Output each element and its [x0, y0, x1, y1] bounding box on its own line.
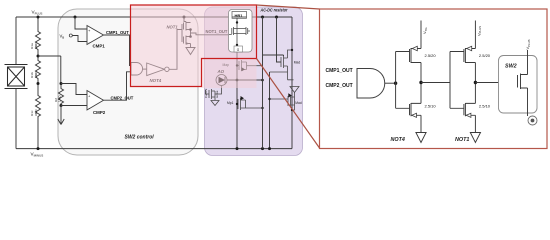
svg-text:CMP2_OUT: CMP2_OUT [326, 83, 353, 89]
wire AO output [227, 79, 263, 81]
transistor NOT1 NMOS [184, 30, 191, 48]
svg-text:CMP1_OUT: CMP1_OUT [326, 68, 353, 74]
wire column c2 [263, 17, 284, 149]
wire gate feed chain1 [396, 52, 410, 109]
callout line top [257, 5, 320, 9]
svg-text:SW2: SW2 [505, 64, 517, 70]
wire NOT4 out to NOT1 in [169, 30, 182, 70]
svg-text:Mp1: Mp1 [227, 101, 234, 105]
node NOT1 rail top [183, 16, 186, 19]
callout line bottom diagonal [257, 59, 320, 149]
svg-text:VMINUS: VMINUS [31, 151, 44, 157]
wire AND to NOT [143, 68, 147, 70]
node R2 top [60, 82, 63, 85]
node tap1 [37, 55, 40, 58]
transistor Mad2 [270, 87, 300, 111]
svg-text:CMP2: CMP2 [93, 110, 106, 115]
svg-text:NOT1: NOT1 [455, 137, 469, 143]
transistor Mp1 [237, 98, 263, 110]
transistor Map [237, 60, 263, 71]
node top rail purple [261, 16, 264, 19]
wire CMP1 plus input [75, 17, 87, 29]
wire AND out [385, 82, 396, 84]
wire NOT1_OUT [191, 33, 230, 35]
svg-text:Current: Current [204, 88, 208, 98]
resistor R1a [36, 17, 41, 60]
wire tap1 to R2 column [38, 56, 61, 84]
HB1 bridge internals [229, 18, 250, 46]
transistor NOT1 PMOS [182, 17, 191, 42]
svg-text:9MΩ: 9MΩ [34, 109, 38, 116]
svg-text:CMP1: CMP1 [93, 43, 106, 48]
transistor NOT4 PMOS detail [410, 48, 422, 63]
svg-text:VTG: VTG [422, 27, 428, 34]
wire CMP2 minus input [61, 105, 87, 107]
wire V_B to CMP1 minus [72, 36, 87, 42]
node bottom rail at R column [37, 147, 40, 150]
node NOT1 output [189, 28, 192, 31]
diode AO (circle) [216, 75, 227, 86]
svg-text:2.5/20: 2.5/20 [479, 53, 491, 58]
gate NOT4 inverter triangle [147, 63, 165, 76]
wire column c2 [261, 79, 264, 82]
wire Mad1 gate feed [277, 17, 282, 62]
node chain1 out [420, 63, 422, 104]
svg-text:1MΩ: 1MΩ [57, 95, 61, 102]
wire chain1 out to chain2 [421, 52, 464, 109]
node R2 bottom [60, 104, 63, 107]
transistor NOT1 NMOS detail [464, 103, 476, 116]
svg-text:2.5/20: 2.5/20 [425, 53, 437, 58]
ground chain2 [470, 115, 480, 142]
svg-text:2.5/10: 2.5/10 [425, 104, 437, 109]
ground chain1 [416, 115, 426, 142]
node tap2 [37, 82, 40, 85]
transducer X1 (box with X between plates) [5, 65, 28, 89]
svg-text:AC-DC resistor: AC-DC resistor [260, 7, 288, 12]
node v292 Mad2 source [291, 109, 293, 111]
transistor Mad1 [270, 50, 294, 80]
wire CMP1 output [104, 35, 132, 66]
wire left vertical [15, 17, 17, 149]
wire CMP2 plus input [61, 84, 87, 95]
resistor R2 [59, 84, 64, 106]
svg-text:VPLUS: VPLUS [476, 26, 482, 36]
highlight pink AO area [202, 59, 257, 89]
svg-text:VPLUS: VPLUS [525, 39, 531, 49]
wire CMP2 output [104, 72, 132, 100]
op-amp CMP1 [87, 26, 104, 45]
highlight L-region (pink with red border) [131, 5, 257, 87]
svg-text:9MΩ: 9MΩ [34, 71, 38, 78]
wire column c3 [269, 72, 271, 149]
svg-text:SW2 control: SW2 control [125, 135, 155, 141]
svg-text:VPLUS: VPLUS [32, 10, 43, 16]
svg-text:sense: sense [215, 90, 219, 98]
svg-text:NOT4: NOT4 [391, 137, 405, 143]
wire chain2 out to SW2 [475, 82, 517, 84]
wire top rail VPLUS [16, 16, 292, 18]
svg-text:9MΩ: 9MΩ [34, 42, 38, 49]
node chain2 out [474, 63, 476, 104]
resistor R1b [36, 60, 41, 149]
wire bottom rail VMINUS [16, 148, 292, 150]
box AC-DC resistor region (purple container) [205, 7, 303, 156]
ground NOT1 [186, 48, 195, 55]
V minus arrow [58, 106, 64, 125]
transistor SW2 PMOS [518, 74, 528, 90]
svg-text:Mad: Mad [294, 60, 301, 64]
op-amp CMP2 [87, 91, 104, 111]
box HB1 [229, 10, 253, 53]
gate AND detail [357, 69, 385, 99]
svg-text:Mad: Mad [295, 101, 302, 105]
box detail view (big red box) [320, 9, 548, 149]
wire right loop [291, 17, 293, 149]
box SW2 [499, 56, 538, 114]
transistor NOT4 NMOS detail [410, 103, 422, 116]
transistor NOT1 PMOS detail [464, 48, 476, 63]
terminal B [528, 116, 537, 125]
gate AND of NOT4 [131, 63, 143, 76]
wire HB1 down column [236, 52, 238, 149]
node top rail at R column [37, 16, 40, 19]
svg-text:2.5/10: 2.5/10 [479, 104, 491, 109]
current sense cluster [206, 86, 222, 106]
box SW2 control (grey container) [58, 9, 198, 155]
node top rail at CMP1 branch [74, 16, 77, 19]
svg-text:CMP1_OUT: CMP1_OUT [106, 30, 129, 35]
port G of HB1 [234, 46, 243, 52]
